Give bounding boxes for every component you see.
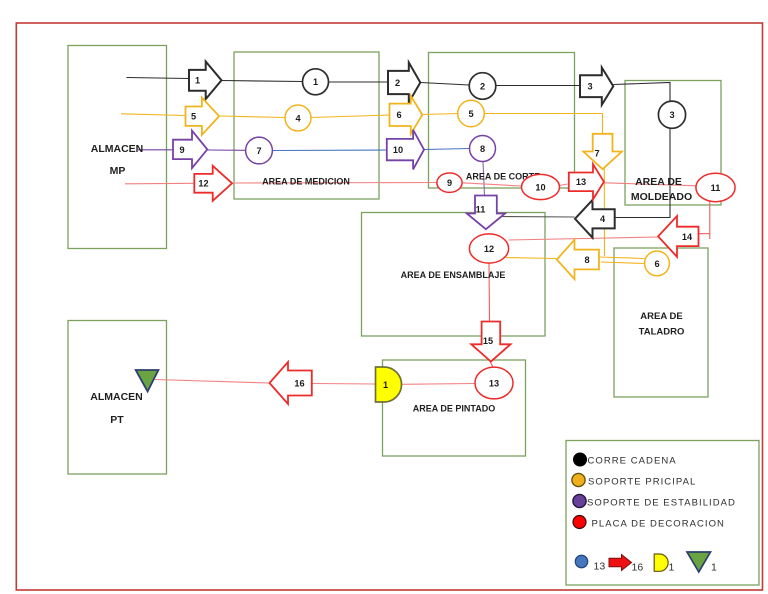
svg-text:MP: MP [110,165,126,177]
svg-text:TALADRO: TALADRO [639,327,685,338]
operation circle 8 (purple) [470,136,496,162]
svg-text:7: 7 [256,146,261,156]
arrow 5 (transport, yellow) [186,98,220,135]
operation circle 3 (black) [658,101,685,128]
svg-text:7: 7 [594,148,599,158]
svg-text:10: 10 [535,182,545,192]
operation circle 2 (black) [469,73,496,100]
svg-text:4: 4 [295,113,301,123]
wire red: arrow 12 to ellipse 9 [234,182,437,185]
svg-text:MOLDEADO: MOLDEADO [631,191,692,203]
wire black: arrow 3 into moldeado, down to arrow 4 [614,83,671,218]
wire red: ALMACEN to arrow 12 [125,182,194,185]
area AREA DE MEDICION box [234,52,379,199]
wire black: ALMACEN to arrow 1 [127,78,190,79]
svg-text:8: 8 [584,255,589,265]
wire purple: arrow 9 to circle 7 [208,149,246,151]
area AREA DE ENSAMBLAJE box [362,213,546,337]
delay symbol D1 (yellow) in AREA DE PINTADO [376,367,402,402]
wire yellow: circle 5 to arrow 7 [485,114,603,135]
wire red: ellipse 12 down to arrow 15 [488,263,491,322]
wire red: ellipse 9 to ellipse 10 [462,183,522,186]
svg-text:AREA DE: AREA DE [640,311,682,322]
svg-text:12: 12 [484,244,494,254]
legend black circle CORRE CADENA [574,453,677,467]
legend green triangle count 1 [687,552,717,574]
area AREA DE TALADRO box [614,248,708,397]
svg-text:5: 5 [468,109,473,119]
svg-text:16: 16 [632,562,644,574]
arrow 9 (transport, purple) [173,131,207,168]
svg-text:8: 8 [480,144,485,154]
svg-text:12: 12 [198,179,208,189]
svg-text:13: 13 [489,378,499,388]
svg-text:AREA DE PINTADO: AREA DE PINTADO [413,404,496,414]
legend red arrow count 16 [609,555,643,574]
svg-text:4: 4 [600,214,606,224]
wire yellow: junction to circle 6 lower [601,262,645,264]
wire red: arrow 16 tip to triangle [155,380,270,384]
inspection ellipse 9 (red) [437,173,462,192]
wire blue: circle 7 to arrow 10 [273,149,387,152]
svg-text:16: 16 [294,378,304,388]
arrow 4 (transport, black, left) [575,200,615,238]
wire red: ellipse 10 to arrow 13 [560,184,568,186]
wire red: arrow 15 tip to circle 13 [490,362,494,369]
wire yellow: arrow 5 to circle 4 [220,116,286,118]
svg-text:SOPORTE DE ESTABILIDAD: SOPORTE DE ESTABILIDAD [587,498,736,509]
arrow 10 (transport, purple) [387,130,424,170]
arrow 12 (transport, red) [194,166,232,201]
svg-text:1: 1 [313,77,318,87]
svg-text:14: 14 [682,232,693,242]
wire black: arrow 4 tip to ensamblaje [497,216,575,219]
operation circle 6 (yellow) [645,251,670,276]
arrow 11 (transport, purple, down) [467,196,505,230]
svg-text:ALMACEN: ALMACEN [90,391,143,403]
operation circle 7 (purple) [246,137,273,164]
legend red circle PLACA DE DECORACION [573,516,725,530]
inspection ellipse 11 (red) [696,173,735,201]
svg-text:1: 1 [711,562,717,574]
wire black: arrow 1 to circle 1 [222,81,303,82]
storage triangle (green) in ALMACEN PT [136,370,159,392]
svg-text:1: 1 [195,76,200,86]
operation circle 5 (yellow) [458,100,485,127]
wire red: arrow 14 tip to ellipse 12 [509,237,659,240]
wire red: arrow 13 tip to ellipse 11 [605,183,697,186]
svg-text:15: 15 [483,336,493,346]
svg-text:3: 3 [669,110,674,120]
wire blue: arrow 10 to circle 8 [424,149,470,150]
svg-text:1: 1 [383,380,388,390]
svg-text:10: 10 [393,145,403,155]
area AREA DE CORTE box [429,53,575,189]
wire black: circle 2 to arrow 3 [496,85,580,87]
area AREA DE MOLDEADO box [625,81,721,206]
svg-text:2: 2 [395,78,400,88]
svg-text:AREA DE MEDICION: AREA DE MEDICION [262,177,350,187]
svg-text:9: 9 [179,145,184,155]
svg-text:6: 6 [654,259,659,269]
arrow 1 (transport, black) [189,62,222,100]
svg-text:AREA DE: AREA DE [635,176,682,188]
svg-text:PLACA DE DECORACION: PLACA DE DECORACION [592,519,725,530]
arrow 7 (transport, yellow, down) [583,134,622,169]
svg-text:3: 3 [587,82,592,92]
area ALMACEN MP box [68,46,167,249]
svg-text:1: 1 [669,562,675,574]
svg-text:AREA DE ENSAMBLAJE: AREA DE ENSAMBLAJE [401,270,506,280]
svg-text:9: 9 [447,178,452,188]
arrow 3 (transport, black) [580,68,613,105]
arrow 2 (transport, black) [388,63,420,103]
operation circle 1 (black) [303,69,329,95]
area ALMACEN PT box [68,321,167,475]
svg-text:SOPORTE PRICIPAL: SOPORTE PRICIPAL [588,477,696,488]
wire black: arrow 2 to circle 2 [421,83,470,86]
wire purple: ALMACEN to arrow 9 [138,149,173,151]
wire yellow: arrow 6 to circle 5 [423,114,458,115]
arrow 8 (transport, yellow, left) [557,240,599,279]
arrow 14 (transport, red, left) [658,216,698,257]
wire red: circle 13 to delay D [401,383,475,386]
svg-text:13: 13 [576,177,586,187]
legend purple circle SOPORTE DE ESTABILIDAD [573,494,736,508]
operation circle 4 (yellow) [285,105,311,131]
wire yellow: ALMACEN to arrow 5 [121,114,185,116]
svg-text:6: 6 [396,110,401,120]
legend yellow delay D count 1 [654,554,674,574]
svg-text:11: 11 [476,205,486,215]
arrow 16 (transport, red, left) [270,362,312,404]
svg-text:ALMACEN: ALMACEN [91,143,144,155]
svg-text:13: 13 [594,561,606,573]
inspection ellipse 13 (red) [475,367,513,399]
legend blue circle count 13 [575,555,605,572]
svg-text:PT: PT [110,414,124,426]
svg-text:5: 5 [191,112,196,122]
wire yellow: arrow 7 tip down [603,168,605,256]
wire yellow: ellipse 12 to arrow 8 tip [506,258,557,259]
wire red: delay D to arrow 16 [312,383,376,386]
wire red: ellipse 11 down to arrow 14 [709,202,711,240]
legend yellow circle SOPORTE PRICIPAL [572,473,696,487]
arrow 15 (transport, red, down) [471,322,510,362]
area AREA DE PINTADO box [383,360,526,456]
svg-text:11: 11 [711,183,721,193]
svg-text:CORRE CADENA: CORRE CADENA [588,456,677,467]
wire red: arrow 14 tail link [699,233,710,235]
wire yellow: circle 4 to arrow 6 [311,115,390,118]
arrow 13 (transport, red) [569,164,604,199]
legend box [566,441,759,586]
svg-text:2: 2 [480,81,485,91]
wire black: circle 1 to arrow 2 [329,81,389,83]
wire yellow: junction to circle 6 upper [599,257,645,259]
arrow 6 (transport, yellow) [390,96,423,134]
wire purple: circle 8 down to arrow 11 [483,162,485,196]
inspection ellipse 10 (red) [522,174,560,199]
inspection ellipse 12 (red) [469,234,508,263]
